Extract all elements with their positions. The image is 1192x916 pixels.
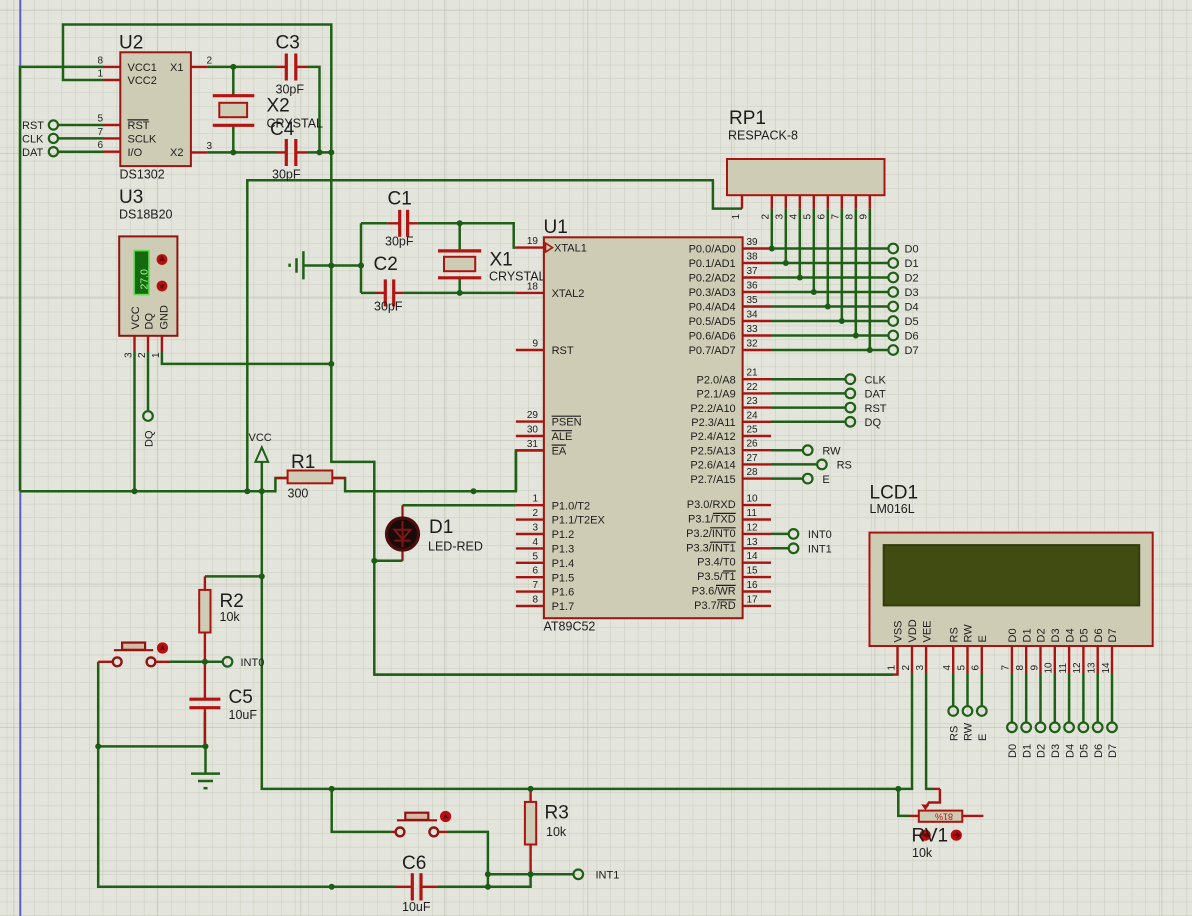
svg-text:3: 3: [775, 214, 786, 220]
capacitor C2: [374, 254, 404, 314]
wire P0.3 row: [771, 291, 888, 294]
svg-text:RST: RST: [865, 403, 887, 415]
wire LCD D2 down: [1039, 673, 1042, 723]
svg-text:1: 1: [731, 214, 742, 220]
junction RP1 pin7: [839, 318, 845, 324]
svg-text:P0.7/AD7: P0.7/AD7: [689, 345, 736, 357]
svg-text:22: 22: [747, 382, 759, 393]
junction RP1 pin5: [811, 289, 817, 295]
svg-text:24: 24: [747, 410, 759, 421]
ground sideways: [290, 251, 304, 279]
pin 19 U1: [516, 236, 544, 248]
pin 7 U2: [97, 127, 120, 139]
svg-text:DAT: DAT: [22, 147, 43, 159]
svg-text:D1: D1: [1021, 744, 1033, 758]
svg-text:1: 1: [532, 494, 538, 505]
wire gnd row y746: [98, 745, 205, 748]
svg-text:21: 21: [747, 368, 759, 379]
pin 18 U1: [516, 281, 544, 293]
terminal D2: [888, 273, 918, 285]
svg-text:U3: U3: [119, 187, 143, 208]
wire RP1 pin9 drop: [869, 209, 872, 350]
wire RP1 pin6 drop: [827, 209, 830, 307]
svg-text:CLK: CLK: [22, 134, 44, 146]
svg-text:LCD1: LCD1: [870, 483, 919, 504]
svg-text:2: 2: [207, 56, 213, 67]
svg-text:DS1302: DS1302: [120, 168, 165, 182]
terminal RS LCD: [948, 706, 960, 741]
svg-text:4: 4: [789, 214, 800, 220]
wire EA pin bend: [516, 450, 544, 491]
svg-text:XTAL2: XTAL2: [552, 288, 585, 300]
svg-text:D6: D6: [1093, 744, 1105, 758]
svg-text:9: 9: [1029, 665, 1040, 671]
wire P0.1 row: [771, 262, 888, 265]
svg-text:D7: D7: [905, 345, 919, 357]
svg-text:14: 14: [747, 551, 759, 562]
pin 2 RP1: [761, 195, 772, 219]
terminal RS: [817, 460, 852, 472]
svg-text:P3.6/WR: P3.6/WR: [692, 586, 736, 598]
pin 9 U1: [516, 339, 544, 351]
svg-text:39: 39: [747, 237, 759, 248]
svg-text:INT0: INT0: [241, 657, 265, 669]
wire R1 right to rail piece: [332, 450, 516, 491]
junction rail right piece: [471, 488, 477, 494]
pin 26 U1: [743, 439, 771, 451]
pin 13 U1: [743, 537, 771, 549]
pin 5 LCD: [956, 646, 967, 673]
pin 12 U1: [743, 522, 771, 534]
svg-text:RST: RST: [22, 120, 44, 132]
pin 5 RP1: [803, 195, 814, 219]
chip U3 DS18B20: [119, 187, 177, 336]
terminal RST: [22, 120, 58, 132]
svg-text:37: 37: [747, 266, 759, 277]
svg-text:3: 3: [532, 523, 538, 534]
terminal D0: [888, 244, 918, 256]
junction RP1 pin3: [783, 260, 789, 266]
pin 25 U1: [743, 425, 771, 437]
pin 14 LCD: [1101, 646, 1112, 674]
capacitor C1: [385, 189, 418, 249]
svg-text:RESPACK-8: RESPACK-8: [728, 129, 798, 143]
pin 3 U2: [191, 141, 213, 152]
svg-text:D2: D2: [905, 273, 919, 285]
wire ground1 stem: [204, 746, 207, 773]
wire RST terminal to U2 pin5: [58, 124, 104, 127]
svg-text:16: 16: [747, 580, 759, 591]
pin 11 LCD: [1058, 646, 1069, 674]
junction RP1 pin2: [769, 246, 775, 252]
svg-text:R1: R1: [291, 452, 315, 473]
pin 22 U1: [743, 382, 771, 394]
svg-text:7: 7: [97, 127, 103, 138]
svg-text:P1.1/T2EX: P1.1/T2EX: [552, 515, 606, 527]
wire P0.4 row: [771, 305, 888, 308]
pin 2 U2: [191, 56, 213, 67]
svg-text:RST: RST: [128, 120, 150, 132]
svg-text:9: 9: [532, 339, 538, 350]
svg-text:5: 5: [532, 551, 538, 562]
wire VCC arrow stem: [261, 462, 264, 491]
pin 8 RP1: [845, 195, 856, 219]
wire P2.3 to DQ: [771, 421, 846, 424]
svg-text:U1: U1: [544, 217, 568, 238]
pin 34 U1: [743, 310, 771, 322]
svg-text:3: 3: [124, 352, 135, 358]
pin 33 U1: [743, 324, 771, 336]
svg-text:P3.1/TXD: P3.1/TXD: [688, 514, 736, 526]
svg-text:P2.6/A14: P2.6/A14: [690, 460, 735, 472]
wire C3 right down to X2 row: [308, 67, 320, 152]
wire INT0 row: [170, 661, 223, 664]
svg-text:P2.4/A12: P2.4/A12: [690, 431, 735, 443]
resistor R3 10k: [525, 789, 569, 874]
svg-text:28: 28: [747, 467, 759, 478]
svg-text:D0: D0: [1007, 628, 1019, 642]
svg-text:U2: U2: [119, 33, 143, 54]
wire X2 column bottom: [232, 125, 235, 152]
pin 38 U1: [743, 252, 771, 264]
svg-text:D7: D7: [1107, 628, 1119, 642]
svg-text:LM016L: LM016L: [870, 502, 915, 516]
svg-text:10k: 10k: [912, 846, 933, 860]
svg-text:RS: RS: [948, 627, 960, 642]
svg-text:P2.5/A13: P2.5/A13: [690, 445, 735, 457]
pin 2 U3: [137, 336, 148, 358]
svg-text:GND: GND: [159, 305, 171, 330]
svg-text:DQ: DQ: [865, 417, 882, 429]
svg-text:29: 29: [527, 410, 539, 421]
svg-text:2: 2: [137, 352, 148, 358]
wire U3 GND pin to ground vertical: [162, 352, 331, 364]
svg-text:6: 6: [97, 140, 103, 151]
svg-text:P1.0/T2: P1.0/T2: [552, 500, 591, 512]
svg-text:R2: R2: [220, 591, 244, 612]
wire U3 DQ pin to terminal: [147, 352, 150, 411]
svg-text:4: 4: [532, 537, 538, 548]
svg-text:8: 8: [532, 595, 538, 606]
svg-text:P3.2/INT0: P3.2/INT0: [686, 528, 736, 540]
junction X1 top: [457, 220, 463, 226]
svg-text:2: 2: [532, 508, 538, 519]
junction VCC arrow on rail: [259, 488, 265, 494]
svg-text:RW: RW: [963, 624, 975, 643]
svg-text:RW: RW: [822, 445, 841, 457]
junction side ground 2: [358, 263, 364, 269]
svg-text:X1: X1: [490, 250, 513, 271]
wire LCD D1 down: [1025, 673, 1028, 723]
wire U2 X1 row to C3: [208, 66, 277, 69]
pin 31 U1: [516, 439, 544, 451]
terminal D5 LCD: [1079, 723, 1091, 759]
svg-text:VCC2: VCC2: [128, 75, 157, 87]
terminal D5: [888, 316, 918, 328]
svg-text:I/O: I/O: [128, 147, 143, 159]
wire LCD VEE down: [926, 673, 934, 789]
wire P2.5 to RW: [771, 449, 803, 452]
svg-text:D3: D3: [1050, 744, 1062, 758]
svg-text:35: 35: [747, 295, 759, 306]
svg-text:EA: EA: [552, 445, 567, 457]
junction INT1 left: [485, 871, 491, 877]
terminal DAT: [846, 389, 886, 401]
svg-text:P1.4: P1.4: [552, 558, 575, 570]
svg-text:5: 5: [803, 214, 814, 220]
crystal X1: [438, 250, 546, 284]
svg-text:25: 25: [747, 425, 759, 436]
wire button2 left branch: [332, 789, 391, 832]
wire ground net vertical x331: [331, 152, 893, 674]
wire pot left branch: [898, 789, 910, 816]
svg-text:13: 13: [1087, 662, 1098, 674]
wire DAT terminal to U2 pin6: [58, 150, 104, 153]
wire U3 VCC pin down to rail: [133, 352, 136, 491]
svg-text:10: 10: [747, 494, 759, 505]
pin 16 U1: [743, 580, 771, 592]
svg-text:C3: C3: [276, 33, 300, 54]
wire X2 column top: [232, 67, 235, 96]
terminal D4: [888, 302, 918, 314]
svg-text:13: 13: [747, 537, 759, 548]
pin 1 U2: [97, 69, 120, 81]
terminal RW LCD: [963, 706, 975, 741]
wire x261 vertical down to bottom bus: [262, 491, 914, 789]
terminal D1: [888, 258, 918, 270]
svg-text:D3: D3: [1050, 628, 1062, 642]
crystal X2: [213, 96, 323, 131]
svg-text:10uF: 10uF: [402, 900, 431, 914]
svg-text:30: 30: [527, 425, 539, 436]
wire RP1 pin7 drop: [841, 209, 844, 321]
wire C2 right to XTAL2: [404, 292, 516, 295]
svg-text:P1.3: P1.3: [552, 544, 575, 556]
svg-text:D0: D0: [905, 244, 919, 256]
pin 29 U1: [516, 410, 544, 422]
svg-text:4: 4: [942, 665, 953, 671]
terminal D3: [888, 287, 918, 299]
pin 2 LCD: [901, 646, 912, 673]
junction RP1 pin4: [797, 275, 803, 281]
terminal RST: [846, 403, 887, 415]
svg-text:D4: D4: [905, 302, 919, 314]
resistor pack RP1 RESPACK-8: [727, 108, 885, 195]
pin 23 U1: [743, 396, 771, 408]
pin 37 U1: [743, 266, 771, 278]
junction U3 VCC on rail: [132, 488, 138, 494]
pin 17 U1: [743, 594, 771, 606]
wire P3.2 to INT0: [771, 533, 789, 536]
pin 6 RP1: [817, 195, 828, 219]
pin 8 LCD: [1015, 646, 1026, 673]
svg-text:P0.6/AD6: P0.6/AD6: [689, 331, 736, 343]
wire C1 left: [361, 222, 388, 225]
svg-text:D4: D4: [1064, 628, 1076, 642]
pin 4 RP1: [789, 195, 800, 219]
svg-text:INT0: INT0: [808, 529, 832, 541]
pin 1 RP1: [731, 195, 742, 219]
junction X2 bottom: [230, 149, 236, 155]
pin 32 U1: [743, 339, 771, 351]
terminal INT0 right: [789, 529, 832, 541]
junction U3 GND joins ground net: [328, 361, 334, 367]
pin 4 U1: [516, 537, 544, 549]
junction INT0 node: [202, 659, 208, 665]
svg-text:8: 8: [845, 214, 856, 220]
svg-text:30pF: 30pF: [276, 83, 305, 97]
svg-text:VSS: VSS: [893, 620, 905, 642]
pin 3 U1: [516, 523, 544, 535]
terminal INT1 left: [574, 870, 620, 882]
wire P2.7 to E: [771, 477, 803, 480]
capacitor C3: [276, 33, 309, 97]
svg-text:RST: RST: [552, 345, 574, 357]
LCD1 LM016L: [870, 483, 1153, 647]
wire LCD D7 down: [1111, 673, 1114, 723]
pin 10 U1: [743, 494, 771, 506]
pin 28 U1: [743, 467, 771, 479]
svg-text:DQ: DQ: [143, 313, 155, 330]
svg-text:2: 2: [761, 214, 772, 220]
svg-text:SCLK: SCLK: [128, 134, 157, 146]
chip U2 DS1302: [119, 33, 191, 182]
wire RP1 pin1 to VCC net: [247, 180, 742, 491]
junction bottom line button2 left: [329, 884, 335, 890]
capacitor C6 10uF: [396, 853, 439, 914]
pin 39 U1: [743, 237, 771, 249]
wire VCC rail left piece: [20, 478, 288, 491]
wire LCD D6 down: [1096, 673, 1099, 723]
svg-text:11: 11: [1058, 663, 1069, 674]
terminal D6 LCD: [1093, 723, 1105, 759]
wire P0.2 row: [771, 276, 888, 279]
svg-text:9: 9: [859, 214, 870, 220]
svg-text:6: 6: [971, 665, 982, 671]
svg-text:10: 10: [1044, 662, 1055, 674]
wire LCD VSS left: [374, 673, 893, 676]
wire side ground to verticals: [303, 264, 361, 267]
svg-text:10uF: 10uF: [229, 708, 258, 722]
push button 1: [98, 642, 170, 666]
svg-text:P0.2/AD2: P0.2/AD2: [689, 273, 736, 285]
svg-text:81%: 81%: [935, 812, 953, 822]
junction bus R3: [528, 786, 534, 792]
svg-text:11: 11: [747, 508, 758, 519]
power flag VCC: [249, 432, 272, 462]
svg-text:X1: X1: [170, 62, 183, 74]
resistor R2 10k: [199, 576, 244, 661]
wire LCD D5 down: [1082, 673, 1085, 723]
svg-text:7: 7: [1001, 665, 1012, 671]
svg-text:D3: D3: [905, 287, 919, 299]
svg-text:P1.2: P1.2: [552, 529, 575, 541]
svg-text:8: 8: [1015, 665, 1026, 671]
pin 30 U1: [516, 425, 544, 437]
svg-text:30pF: 30pF: [385, 235, 414, 249]
chip U1 AT89C52: [544, 217, 743, 634]
pin 6 U1: [516, 566, 544, 578]
wire C5 gnd: [204, 712, 207, 746]
wire P2.6 to RS: [771, 463, 817, 466]
svg-text:DAT: DAT: [865, 389, 886, 401]
pin 1 U3: [151, 336, 162, 358]
terminal D7 LCD: [1107, 723, 1119, 759]
svg-text:6: 6: [532, 566, 538, 577]
svg-text:RS: RS: [837, 460, 852, 472]
wire U2 X2 row to C4: [208, 151, 277, 154]
svg-text:10k: 10k: [546, 825, 567, 839]
wire INT1 row: [488, 873, 574, 876]
junction gnd row right: [203, 743, 209, 749]
wire P2.0 to CLK: [771, 378, 846, 381]
svg-text:LED-RED: LED-RED: [428, 540, 483, 554]
svg-text:DS18B20: DS18B20: [119, 208, 173, 222]
wire LCD D0 down: [1011, 673, 1014, 723]
junction X2 top: [230, 64, 236, 70]
terminal DQ: [846, 417, 882, 429]
svg-text:P2.1/A9: P2.1/A9: [697, 389, 736, 401]
svg-text:P3.0/RXD: P3.0/RXD: [687, 499, 736, 511]
terminal DQ: [143, 411, 155, 447]
svg-text:36: 36: [747, 281, 759, 292]
pin 4 LCD: [942, 646, 953, 673]
svg-text:3: 3: [915, 665, 926, 671]
svg-text:19: 19: [527, 236, 539, 247]
svg-text:12: 12: [747, 522, 759, 533]
wire P2.1 to DAT: [771, 392, 846, 395]
wire P3.3 to INT1: [771, 547, 789, 550]
pin 13 LCD: [1087, 646, 1098, 674]
svg-text:P0.5/AD5: P0.5/AD5: [689, 316, 736, 328]
svg-text:P2.2/A10: P2.2/A10: [690, 403, 735, 415]
wire button1 left down: [97, 662, 100, 747]
junction bottom line button2 right: [485, 884, 491, 890]
svg-text:C1: C1: [388, 189, 412, 210]
pin 35 U1: [743, 295, 771, 307]
pin 3 RP1: [775, 195, 786, 219]
junction side ground 1: [328, 263, 334, 269]
wire RP1 pin2 drop: [771, 209, 774, 249]
svg-text:D1: D1: [429, 517, 453, 538]
svg-text:X2: X2: [267, 96, 290, 117]
pin 1 LCD: [886, 646, 897, 675]
junction RP1 pin8: [853, 333, 859, 339]
svg-text:R3: R3: [545, 803, 569, 824]
pin 5 U1: [516, 551, 544, 563]
svg-text:RV1: RV1: [912, 826, 949, 847]
wire U2 VCC2 from top rail: [63, 25, 331, 153]
pin 12 LCD: [1072, 646, 1083, 674]
pin 2 U1: [516, 508, 544, 520]
terminal D7: [888, 345, 918, 357]
junction gnd row left: [95, 743, 101, 749]
svg-text:2: 2: [901, 665, 912, 671]
wire RP1 pin5 drop: [813, 209, 816, 292]
pin 36 U1: [743, 281, 771, 293]
resistor R1 300: [275, 452, 345, 501]
svg-text:D5: D5: [905, 316, 919, 328]
pin 3 U3: [124, 336, 135, 358]
svg-text:5: 5: [97, 114, 103, 125]
svg-text:18: 18: [527, 281, 539, 292]
pin 3 LCD: [915, 646, 926, 673]
svg-text:3: 3: [207, 141, 213, 152]
svg-text:15: 15: [747, 566, 759, 577]
svg-text:34: 34: [747, 310, 759, 321]
svg-text:P2.0/A8: P2.0/A8: [697, 374, 736, 386]
wire LCD D3 down: [1054, 673, 1057, 723]
